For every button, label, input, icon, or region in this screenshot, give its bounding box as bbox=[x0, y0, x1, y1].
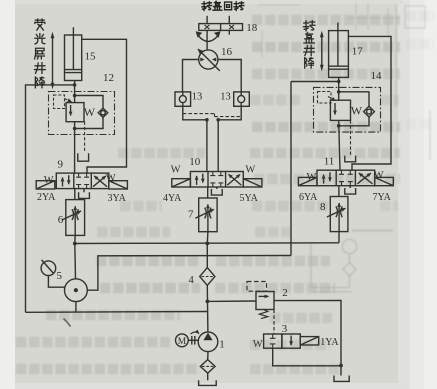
counterbalance unit 12 enclosure (dash-dot) bbox=[49, 92, 115, 135]
wire: check 13 left to valve 10 port A bbox=[183, 106, 207, 120]
solenoid 7YA box bbox=[375, 177, 394, 185]
svg-text:6: 6 bbox=[58, 214, 64, 226]
wire: unit 14 to valve 11 port A bbox=[339, 120, 340, 170]
svg-text:15: 15 bbox=[85, 51, 97, 63]
counterbalance unit 14 enclosure (dash-dot) bbox=[314, 87, 381, 132]
svg-text:8: 8 bbox=[320, 201, 326, 213]
svg-text:W: W bbox=[245, 165, 255, 176]
svg-text:W: W bbox=[351, 104, 363, 118]
svg-text:W: W bbox=[171, 165, 181, 176]
wire: junction circle up to bus bbox=[74, 244, 77, 279]
pilot dashed wire valve 2 to valve 3 bbox=[273, 310, 275, 335]
tank under unit 14 drain bbox=[345, 156, 356, 162]
svg-text:7: 7 bbox=[188, 208, 194, 220]
svg-text:6YA: 6YA bbox=[299, 192, 318, 203]
wire: valve 9 P to flow valve 6 bbox=[74, 189, 76, 200]
node: branch top bbox=[73, 94, 77, 98]
node: bus at valve 6 bbox=[73, 242, 77, 246]
wire: cylinder15 rod side to valve 9 port B bbox=[82, 39, 127, 173]
wire: left bypass from cylinder 15 down page bbox=[26, 85, 75, 312]
wire: A drop to valve 10 bbox=[206, 120, 208, 172]
filter 4 bbox=[200, 268, 215, 286]
svg-text:13: 13 bbox=[220, 92, 231, 103]
node B10 bbox=[216, 118, 220, 122]
check valve (diamond) of unit 12 bbox=[98, 108, 108, 117]
svg-text:17: 17 bbox=[352, 46, 364, 58]
label column: 荧光屏升降 (screen lift) bbox=[34, 19, 45, 88]
flow control valve 6 bbox=[63, 200, 85, 236]
flow control valve 8 bbox=[327, 197, 348, 232]
pressure gauge 5 bbox=[41, 260, 56, 276]
pressure bus (upper) bbox=[75, 242, 339, 245]
svg-text:12: 12 bbox=[103, 72, 114, 84]
svg-text:W: W bbox=[106, 173, 116, 184]
hydraulic motor 16 bbox=[198, 49, 220, 71]
cylinder 17 (turntable lift) bbox=[329, 23, 349, 78]
pump riser wire bbox=[206, 243, 208, 267]
node: bus at pump riser bbox=[205, 242, 209, 246]
check valve 13 left bbox=[175, 92, 191, 106]
wire: valve 10 P to flow valve 7 bbox=[207, 187, 209, 198]
shaft: gearbox to motor 16 bbox=[206, 30, 208, 50]
shaft M to pump bbox=[188, 332, 199, 345]
cylinder 15 (fluorescent screen lift) bbox=[65, 27, 82, 80]
svg-text:13: 13 bbox=[192, 92, 203, 103]
drain of unit 12 (dashed) bbox=[84, 122, 86, 153]
bleed blue marks bottom-left (decorative) bbox=[4, 369, 30, 380]
pilot dashed box of unit 12 bbox=[54, 95, 72, 109]
svg-text:7YA: 7YA bbox=[373, 192, 392, 203]
wire: flow valve 7 to bus bbox=[206, 232, 209, 244]
wire: filter 4 to pump bbox=[206, 285, 209, 332]
relief branch wire to valve 2 bbox=[207, 300, 256, 302]
solenoid 2YA box bbox=[36, 181, 55, 189]
valve 10 body (3-pos 4-way) bbox=[190, 172, 243, 188]
wire: cylinder 17 rod side to valve 11 port B bbox=[348, 36, 391, 170]
flow control valve 7 bbox=[195, 198, 217, 232]
up-down arrow (screen lift) bbox=[51, 32, 55, 89]
wire: cylinder 17 cap side down bbox=[338, 77, 340, 100]
svg-text:3YA: 3YA bbox=[108, 193, 127, 204]
svg-text:1: 1 bbox=[219, 338, 225, 350]
node: cap 17 tee bbox=[337, 80, 341, 84]
svg-text:2: 2 bbox=[282, 287, 288, 299]
wire: bus riser to flow valve 8 bbox=[338, 232, 340, 243]
svg-text:1YA: 1YA bbox=[320, 337, 339, 348]
valve 11 body (3-pos 4-way) bbox=[317, 170, 375, 186]
gauge junction circle bbox=[65, 279, 88, 302]
pump 1 bbox=[198, 332, 218, 352]
solenoid 5YA box bbox=[243, 179, 262, 187]
solenoid 1YA box bbox=[300, 337, 318, 345]
svg-text:4: 4 bbox=[189, 275, 195, 286]
svg-text:3: 3 bbox=[282, 323, 288, 335]
electric motor M bbox=[176, 334, 189, 347]
tank under unit 12 drain bbox=[78, 153, 89, 161]
wire: flow valve 6 to pressure bus bbox=[74, 235, 76, 243]
pilot dashed box of unit 14 bbox=[318, 92, 336, 104]
wire: valve 11 P to flow valve 8 bbox=[338, 186, 340, 197]
node A10 bbox=[205, 118, 209, 122]
node: cap-side tee bbox=[73, 83, 77, 87]
node: branch bottom bbox=[73, 127, 77, 131]
node: relief branch tee bbox=[206, 300, 210, 304]
wire: cylinder15 cap side down into unit 12 bbox=[74, 81, 76, 103]
bleed-through grid top right (decorative) bbox=[258, 3, 430, 160]
svg-text:9: 9 bbox=[58, 158, 64, 170]
wire: bottom gauge line to pump riser bbox=[26, 311, 208, 314]
wire: motor left to check valve 13 left bbox=[183, 60, 199, 92]
blue margin glyphs left edge (decorative) bbox=[17, 147, 30, 350]
check valve (diamond) of unit 14 bbox=[364, 106, 375, 117]
node: tank line junction bbox=[339, 364, 343, 368]
valve 9 body (3-pos 4-way) bbox=[56, 173, 109, 189]
tank under pump bbox=[199, 380, 217, 385]
svg-text:W: W bbox=[84, 105, 96, 119]
node: branch 14 bottom bbox=[337, 124, 341, 128]
solenoid 4YA box bbox=[172, 179, 191, 187]
check valve 13 right bbox=[234, 92, 250, 106]
stray pen mark near junction circle (decorative) bbox=[64, 319, 71, 327]
solenoid 3YA box bbox=[109, 181, 128, 189]
up-down arrow (turntable lift) bbox=[320, 31, 324, 71]
pilot dashed box of relief valve 2 bbox=[247, 282, 267, 292]
balance valve in unit 12 bbox=[66, 103, 84, 122]
svg-text:18: 18 bbox=[246, 22, 257, 34]
svg-text:W: W bbox=[307, 172, 317, 183]
wire: unit 12 to valve 9 port A bbox=[74, 122, 76, 173]
wire: gauge 5 to junction circle bbox=[48, 276, 64, 288]
solenoid 6YA box bbox=[298, 177, 317, 185]
node: branch 14 top bbox=[337, 90, 341, 94]
unloading valve 3 (2-pos 2-way solenoid) bbox=[264, 334, 301, 348]
valve 9 T port tank bbox=[79, 189, 90, 199]
svg-text:14: 14 bbox=[371, 70, 383, 82]
tank bottom right bbox=[334, 376, 349, 382]
check valve branch of unit 12 bbox=[75, 96, 103, 109]
svg-text:5: 5 bbox=[57, 270, 63, 282]
relief valve 2 bbox=[256, 292, 274, 310]
valve 10 T port tank bbox=[211, 187, 222, 195]
relief valve 2 outlet wire to tank bbox=[274, 300, 341, 375]
drain of unit 14 (dashed) bbox=[350, 120, 352, 155]
wire: riser to cylinder 17 line bbox=[290, 82, 292, 256]
rotation arrow (bidirectional arc) bbox=[196, 31, 221, 41]
gearbox 18 (worm drive) bbox=[199, 16, 243, 35]
suction filter under pump bbox=[200, 352, 215, 381]
check valve branch of unit 14 bbox=[339, 92, 369, 106]
svg-text:W: W bbox=[374, 170, 384, 181]
svg-text:5YA: 5YA bbox=[240, 193, 259, 204]
wire: motor right to check valve 13 right bbox=[218, 60, 241, 92]
svg-text:W: W bbox=[253, 339, 263, 350]
svg-text:11: 11 bbox=[324, 156, 335, 168]
svg-text:4YA: 4YA bbox=[163, 193, 182, 204]
spring of relief valve 2 (zigzag) bbox=[259, 310, 268, 319]
wire: check 13 right to valve 10 port B bbox=[218, 106, 241, 120]
wire: B drop to valve 10 bbox=[217, 120, 219, 172]
label column: 转盘升降 (turntable lift) bbox=[303, 21, 314, 68]
svg-text:M: M bbox=[178, 337, 187, 347]
wire: junction circle down bbox=[75, 302, 77, 312]
wire: cap 17 tee to sensing riser bbox=[291, 81, 339, 83]
svg-text:16: 16 bbox=[221, 46, 233, 58]
gauge sensing line (lower) bbox=[87, 256, 291, 291]
valve 11 T port tank bbox=[345, 186, 356, 194]
title: 转盘回转 (turntable rotation) bbox=[202, 1, 244, 10]
svg-text:W: W bbox=[44, 175, 54, 186]
pilot cross line (dashed) between check valves bbox=[183, 114, 241, 117]
bleed-through diagram shapes right middle (decorative) bbox=[311, 231, 393, 292]
balance valve in unit 14 bbox=[330, 100, 350, 120]
svg-text:2YA: 2YA bbox=[37, 192, 56, 203]
wire: valve 3 return to tank line bbox=[273, 348, 341, 366]
svg-text:10: 10 bbox=[189, 156, 201, 168]
